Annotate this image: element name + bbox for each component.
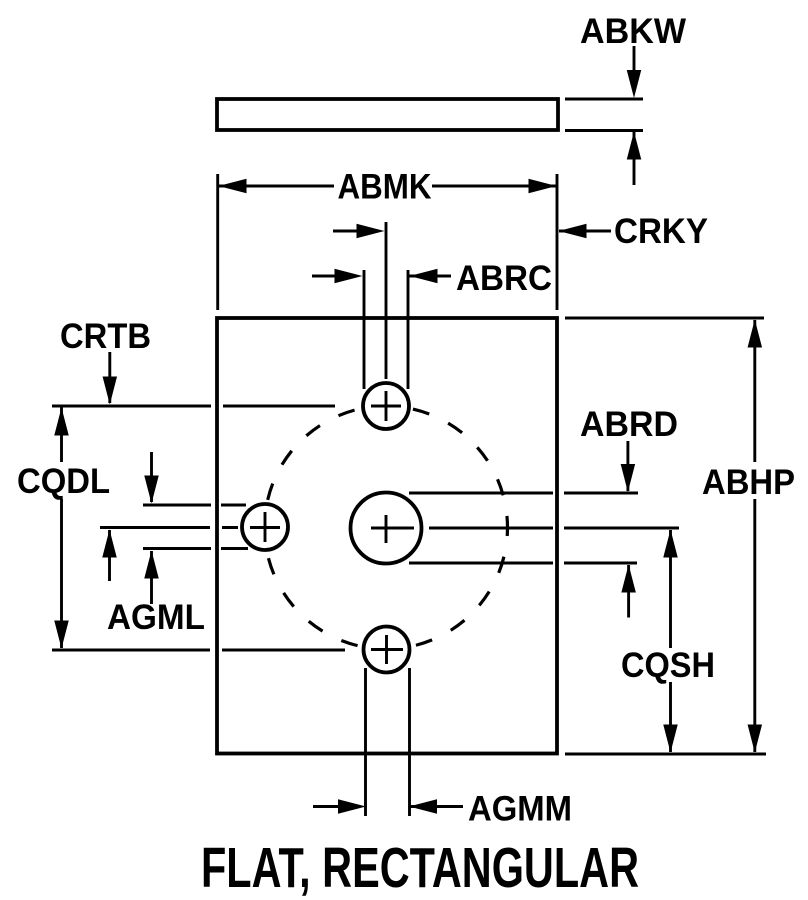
left hole top edge line: [143, 504, 246, 507]
top hole vertical centerline: [385, 222, 388, 379]
ABHP bottom arrowhead: [748, 725, 763, 753]
CQDL bottom arrowhead: [54, 621, 69, 649]
svg-text:ABMK: ABMK: [338, 167, 432, 207]
left hole crosshair: [250, 512, 280, 542]
label CQDL white backing: [12, 462, 116, 499]
svg-text:CQDL: CQDL: [17, 461, 110, 501]
CRTB down arrowhead: [103, 377, 118, 405]
CQSH top arrowhead: [663, 530, 678, 558]
ABHP top extension line: [565, 317, 764, 320]
ABRD top arrowhead: [621, 464, 636, 492]
ABKW arrow lower tail: [633, 132, 636, 185]
center hole H3: [351, 493, 422, 564]
AGML lower arrow tail: [150, 551, 153, 604]
CQDL dimension line: [60, 407, 63, 648]
CRTB arrow tail: [108, 352, 111, 403]
center hole horizontal centerline right: [429, 527, 679, 530]
CQSH bottom arrowhead: [663, 725, 678, 753]
ABMK left arrowhead: [219, 179, 247, 194]
main plate rectangle: [217, 318, 557, 754]
ABMK right arrowhead: [529, 179, 557, 194]
svg-text:AGML: AGML: [107, 597, 205, 637]
ABRC right arrow tail: [409, 275, 451, 278]
svg-text:ABKW: ABKW: [580, 11, 686, 51]
svg-text:FLAT, RECTANGULAR: FLAT, RECTANGULAR: [201, 836, 639, 900]
label CQSH white backing: [616, 648, 720, 682]
CRTB pair up arrowhead: [102, 530, 117, 558]
CQDL top arrowhead: [54, 408, 69, 436]
ABHP top arrowhead: [748, 320, 763, 348]
ABKW down arrowhead: [627, 70, 642, 98]
bolt circle (dashed): [265, 406, 508, 649]
ABMK dimension line right part: [432, 185, 557, 188]
svg-text:AGMM: AGMM: [468, 789, 572, 829]
ABMK right extension line: [556, 174, 559, 310]
ABRD arrow tail upper: [626, 441, 629, 491]
AGML line (bottom hole horizontal centerline): [52, 649, 345, 652]
center hole top edge line: [409, 492, 638, 495]
bottom hole crosshair: [371, 635, 403, 664]
svg-text:ABRD: ABRD: [580, 404, 678, 444]
top hole right edge extension: [407, 270, 410, 389]
left hole bottom edge line: [143, 547, 248, 550]
ABRD bottom arrowhead: [621, 565, 636, 593]
AGMM right edge extension: [408, 668, 411, 816]
ABRC left arrow tail: [312, 275, 340, 278]
AGMM left edge extension: [364, 668, 367, 816]
center hole bottom edge line: [409, 562, 637, 565]
side-view plate (thin rectangle): [217, 99, 558, 130]
CRKY arrow tail to hole centerline: [333, 230, 360, 233]
CQSH dimension line: [669, 530, 672, 752]
ABMK left extension line: [216, 174, 219, 310]
svg-text:ABHP: ABHP: [702, 462, 795, 502]
CRKY inner arrowhead (points right at centerline): [357, 224, 385, 239]
left hole H2: [242, 504, 288, 550]
CRKY arrow tail right: [559, 230, 611, 233]
label ABHP white backing: [697, 462, 800, 499]
top hole H1: [363, 383, 409, 429]
ABRC right arrowhead: [410, 269, 438, 284]
AGMM right arrowhead: [409, 799, 437, 814]
ABRD arrow tail lower: [627, 565, 630, 618]
bottom hole H4: [364, 627, 410, 673]
AGML upper arrow tail: [150, 452, 153, 502]
ABMK dimension line left part: [218, 185, 334, 188]
center hole crosshair: [371, 515, 414, 543]
ABKW extension line top: [565, 98, 643, 101]
AGMM left arrow tail: [313, 805, 341, 808]
top hole left edge extension: [363, 270, 366, 389]
ABRC left arrowhead: [335, 269, 363, 284]
AGMM left arrowhead: [338, 799, 366, 814]
svg-text:CRKY: CRKY: [614, 211, 708, 251]
left-mid up arrow tail (CRTB pair): [108, 530, 111, 581]
svg-text:CRTB: CRTB: [60, 316, 151, 356]
left hole horizontal centerline: [100, 526, 238, 529]
CRKY outer arrowhead (points left at plate edge): [559, 224, 587, 239]
ABKW up arrowhead: [627, 132, 642, 160]
top hole crosshair: [371, 391, 401, 421]
svg-text:ABRC: ABRC: [456, 258, 552, 298]
ABHP dimension line: [753, 320, 756, 752]
AGMM right arrow tail: [409, 805, 463, 808]
ABKW arrow upper tail: [633, 46, 636, 74]
ABHP bottom extension line: [565, 753, 766, 756]
ABKW extension line bottom: [565, 129, 643, 132]
CRTB line (top hole horizontal centerline): [52, 405, 335, 408]
AGML top arrowhead: [144, 476, 159, 504]
AGML bottom arrowhead: [144, 551, 159, 579]
svg-text:CQSH: CQSH: [621, 645, 715, 685]
